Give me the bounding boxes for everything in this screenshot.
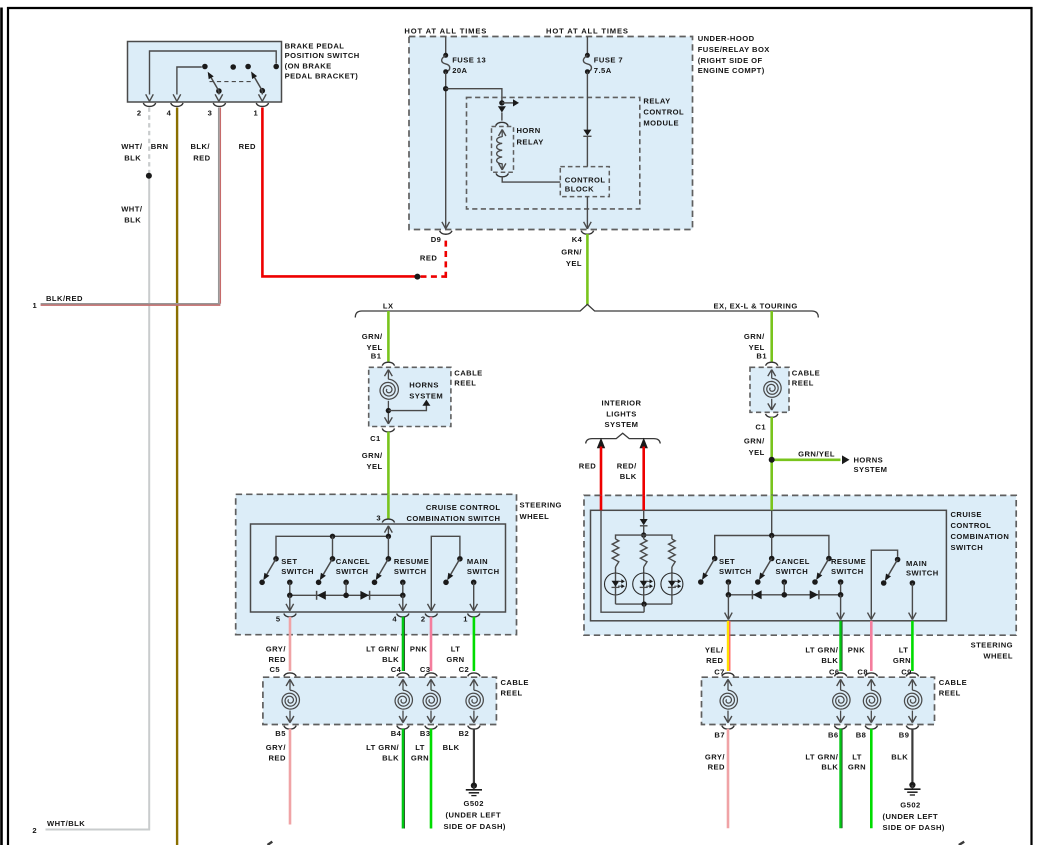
svg-text:C3: C3 [420,665,431,674]
wire LT GRN B8 down [870,729,873,828]
svg-text:SWITCH: SWITCH [951,543,984,552]
label LT GRN/BLK bottom-right [805,752,838,771]
svg-text:C5: C5 [269,665,280,674]
cable reel box bottom-right [702,677,935,724]
connector B4 [391,726,410,739]
label YEL/RED [705,646,724,665]
svg-text:LT: LT [899,646,909,655]
wire RED dashed to D9 [421,237,448,278]
svg-text:GRN/: GRN/ [362,451,383,460]
svg-text:B4: B4 [391,729,402,738]
label LT GRN left [446,645,464,664]
connector B1 right [756,352,778,366]
branch bracket LX / EX [355,304,818,317]
wire fuse13 feed [445,37,447,54]
wire pin1 internal [259,91,267,102]
connector C1 left [370,429,395,443]
label BLK bottom-right [891,752,908,761]
label LT GRN/BLK bottom-left [366,743,399,762]
svg-text:GRY/: GRY/ [266,645,287,654]
wire GRN/YEL down to right cruise switch [770,460,773,511]
svg-text:PNK: PNK [848,646,865,655]
RESUME output left [400,580,406,596]
svg-text:GRY/: GRY/ [266,743,287,752]
wire LT GRN/BLK pin4 to C4 [403,617,405,671]
svg-text:4: 4 [167,108,172,117]
cable reel coil at x=431.0 [423,679,440,722]
cable reel coil at x=728.0 [720,679,737,722]
label GRN/YEL above B1 left [362,332,383,352]
svg-text:4: 4 [392,614,397,623]
svg-text:SIDE OF DASH): SIDE OF DASH) [444,822,506,831]
contact node A [202,64,208,70]
SET output left [287,580,293,596]
ground G502 right [904,782,920,795]
svg-text:RED: RED [269,754,286,763]
wire YEL/RED to C7 [728,621,730,671]
label CABLE REEL bottom-left [501,678,529,697]
svg-text:ENGINE COMPT): ENGINE COMPT) [698,66,765,75]
connector C2 [459,665,481,677]
svg-text:BRAKE PEDAL: BRAKE PEDAL [285,41,345,50]
brake pedal position switch label [285,41,360,80]
connector C7 [714,667,734,676]
SET switch left [259,556,279,585]
resistor rail junction [641,532,646,537]
label RED at D9 [420,253,437,262]
svg-text:BLK: BLK [124,216,141,225]
resistor R3 [669,539,676,567]
left edge label 2 WHT/BLK [32,819,85,835]
svg-text:LT: LT [451,645,461,654]
label RED interior [579,462,596,471]
under-hood fuse/relay box [409,37,693,230]
pin 1 connector [254,103,269,117]
svg-text:RED: RED [269,655,286,664]
svg-text:POSITION SWITCH: POSITION SWITCH [285,51,360,60]
diode D-left right box [752,590,761,599]
connector C9 [901,667,918,676]
pin 4 connector left [392,614,409,624]
svg-text:B3: B3 [420,729,431,738]
resistor top rail [616,535,672,539]
LED3 [661,567,683,595]
svg-text:CRUISE: CRUISE [951,510,982,519]
diode D-left (points left) [317,591,326,600]
wire PNK pin2 to C3 [430,617,433,671]
wire control block to K4 [584,197,592,229]
wire LT GRN pin1 to C2 [473,617,476,671]
RESUME switch left [372,536,392,585]
border frame outer edge line [0,8,3,845]
wire SET output to C7 [725,595,733,620]
label PNK right [848,646,865,655]
horn relay box [492,127,514,173]
left edge label 1 BLK/RED [33,294,83,310]
svg-text:BLK: BLK [382,655,399,664]
label HOT AT ALL TIMES left [404,27,487,36]
svg-text:C1: C1 [755,423,766,432]
svg-text:2: 2 [32,826,37,835]
svg-text:(UNDER LEFT: (UNDER LEFT [446,811,502,820]
bracket interior lights [586,433,661,443]
svg-text:CRUISE CONTROL: CRUISE CONTROL [426,503,501,512]
wire RED/BLK to interior lights [640,438,648,511]
wire LT GRN/BLK to C6 [841,621,843,671]
svg-text:B7: B7 [714,731,725,740]
svg-text:D9: D9 [431,235,442,244]
svg-text:CONTROL: CONTROL [643,107,684,116]
svg-text:SET: SET [719,557,735,566]
pin 2 connector [137,103,156,117]
cruise control combination switch box left [236,494,517,634]
contact node C [245,64,251,70]
svg-text:CONTROL: CONTROL [565,176,606,185]
label LT GRN bottom-right [848,752,866,771]
svg-text:MAIN: MAIN [906,559,927,568]
wire BLK B2 to ground [473,729,475,784]
svg-text:1: 1 [463,614,468,623]
diode D-right right box [810,590,819,599]
svg-text:YEL/: YEL/ [705,646,724,655]
label LX [383,302,394,311]
control block label [565,176,606,194]
svg-text:WHT/: WHT/ [121,142,143,151]
svg-text:5: 5 [276,614,281,623]
contact node D [273,64,279,70]
ganged switch link (dashed) [210,81,252,83]
svg-text:(UNDER LEFT: (UNDER LEFT [883,812,939,821]
left rail inside right box (RED return) [601,510,644,612]
svg-text:LT: LT [852,752,862,761]
svg-text:YEL: YEL [749,448,765,457]
label STEERING WHEEL left [520,501,562,521]
svg-text:SWITCH: SWITCH [336,567,369,576]
svg-text:UNDER-HOOD: UNDER-HOOD [698,34,755,43]
diode line right box [726,592,844,598]
wire BRN [176,108,178,845]
RESUME output right [838,579,844,595]
junction GRN/YEL to horns [769,457,775,463]
wire GRN/YEL EX drop [770,311,773,362]
label BLK bottom-left [443,743,460,752]
svg-text:FUSE 13: FUSE 13 [452,55,486,64]
svg-text:B5: B5 [275,729,286,738]
svg-text:BLK: BLK [382,754,399,763]
wire GRN/YEL C1 to junction [770,417,773,460]
cable reel coil at x=912.4 [904,679,921,722]
wire RED to interior lights [597,438,605,511]
svg-text:CABLE: CABLE [454,369,482,378]
svg-text:B1: B1 [756,352,767,361]
connector B7 [714,726,734,740]
svg-text:(RIGHT SIDE OF: (RIGHT SIDE OF [698,56,763,65]
svg-text:PEDAL BRACKET): PEDAL BRACKET) [285,71,359,80]
splice junction on WHT/BLK [146,173,152,179]
cable reel box EX [750,367,789,412]
brake pedal position switch box [128,42,282,103]
wire LT GRN B3 down [430,729,433,829]
connector B6 [828,726,847,740]
connector B8 [856,726,878,740]
wire fuse7 feed [586,37,588,54]
svg-text:BLK: BLK [821,763,838,772]
CANCEL switch right [755,536,775,585]
svg-text:HORNS: HORNS [854,456,884,465]
svg-text:K4: K4 [572,235,583,244]
connector C8 [857,667,877,676]
svg-text:PNK: PNK [410,645,427,654]
svg-text:YEL: YEL [366,462,382,471]
svg-text:BLK: BLK [620,472,637,481]
svg-text:RED: RED [193,153,210,162]
svg-text:SET: SET [281,557,297,566]
svg-text:CABLE: CABLE [792,369,820,378]
MAIN switch right [881,557,900,586]
svg-text:RED: RED [579,462,596,471]
svg-text:WHT/BLK: WHT/BLK [47,819,85,828]
svg-text:SWITCH: SWITCH [776,567,809,576]
svg-text:SYSTEM: SYSTEM [605,420,639,429]
top rail right box [715,533,829,558]
svg-text:HORNS: HORNS [409,381,439,390]
svg-text:STEERING: STEERING [971,640,1013,649]
svg-text:3: 3 [376,513,381,522]
connector D9 [431,231,452,244]
svg-text:7.5A: 7.5A [594,66,612,75]
cable reel box LX [369,367,451,426]
svg-text:CANCEL: CANCEL [776,557,810,566]
wire RESUME output to pin 4 [399,595,407,611]
svg-text:C9: C9 [901,667,912,676]
svg-text:B1: B1 [371,352,382,361]
label CRUISE CONTROL COMBINATION SWITCH left [406,503,500,523]
svg-text:3: 3 [208,108,213,117]
svg-text:SWITCH: SWITCH [831,567,864,576]
wire pin2 internal [146,51,277,101]
svg-text:RED: RED [420,253,437,262]
svg-text:REEL: REEL [792,379,814,388]
wire fuse13 to D9 [442,72,450,229]
relay control module box [467,97,640,208]
svg-text:C7: C7 [714,667,725,676]
connector C3 [420,665,437,677]
label GRN/YEL below C1 right [744,437,765,457]
CANCEL output left [343,580,349,596]
svg-text:FUSE 7: FUSE 7 [594,55,623,64]
MAIN switch feed from pin 2 [428,536,460,611]
label G502 right [883,800,945,832]
wire LT GRN to C9 [911,621,914,671]
wire GRY/RED B7 down [727,729,730,828]
svg-text:GRN: GRN [848,763,866,772]
wire pin3 internal [215,91,223,101]
SET switch right [698,556,718,585]
label GRN/YEL below C1 left [362,451,383,471]
label CABLE REEL left-top [454,369,482,388]
svg-text:RESUME: RESUME [394,557,429,566]
svg-text:SWITCH: SWITCH [281,567,314,576]
svg-text:GRN/: GRN/ [561,247,582,256]
MAIN switch left [443,556,463,585]
svg-text:COMBINATION: COMBINATION [951,532,1010,541]
label LT GRN/BLK left [366,645,399,664]
svg-text:WHT/: WHT/ [121,204,143,213]
page continuation arrow bottom-left [268,842,273,845]
svg-text:REEL: REEL [454,379,476,388]
fuse F13 [442,53,450,74]
svg-text:SWITCH: SWITCH [719,567,752,576]
svg-text:SIDE OF DASH): SIDE OF DASH) [883,823,945,832]
label GRN/YEL horizontal [798,449,835,458]
svg-text:GRY/: GRY/ [705,752,726,761]
label FUSE 7 7.5A [594,55,623,75]
svg-text:LT GRN/: LT GRN/ [805,646,838,655]
MAIN output to C9 [909,580,917,619]
diode D-right (points right) [360,591,369,600]
label CABLE REEL right-top [792,369,820,388]
svg-text:INTERIOR: INTERIOR [602,399,642,408]
svg-text:HOT AT ALL TIMES: HOT AT ALL TIMES [546,27,629,36]
svg-text:C6: C6 [829,667,840,676]
pin 2 connector left [421,614,438,624]
svg-text:RED/: RED/ [617,462,637,471]
svg-text:BLK: BLK [124,153,141,162]
horn relay top connector [496,122,508,125]
svg-text:2: 2 [137,108,142,117]
svg-text:EX, EX-L & TOURING: EX, EX-L & TOURING [714,302,798,311]
svg-text:B9: B9 [899,731,910,740]
label GRN/YEL above B1 right [744,332,765,352]
red wires crossing dashed box top [601,495,644,510]
cable reel coil EX [764,370,781,410]
svg-text:FUSE/RELAY BOX: FUSE/RELAY BOX [698,45,770,54]
connector B9 [899,726,919,740]
svg-text:MODULE: MODULE [643,118,679,127]
MAIN switch feed from C8 [868,550,898,619]
label EX, EX-L & TOURING [714,302,798,311]
wire PNK to C8 [870,621,873,671]
svg-text:GRN: GRN [893,656,911,665]
svg-text:GRN/: GRN/ [362,332,383,341]
svg-text:G502: G502 [900,800,920,809]
wire fuse7 to control block with diode [583,72,591,167]
label HORN RELAY [517,126,544,146]
svg-text:LT GRN/: LT GRN/ [805,752,838,761]
inner switch box left [251,524,506,612]
label GRY/RED bottom-left [266,743,287,762]
svg-text:CABLE: CABLE [501,678,529,687]
connector B5 [275,726,296,739]
svg-text:RESUME: RESUME [831,557,866,566]
svg-text:LT GRN/: LT GRN/ [366,743,399,752]
top rail left box [276,534,391,559]
label PNK left [410,645,427,654]
junction to horns system [386,408,391,413]
switch arm left (pins 3-4) [208,72,222,94]
svg-text:2: 2 [421,614,426,623]
CANCEL switch left [316,536,336,585]
label GRY/RED left [266,645,287,664]
svg-text:C4: C4 [391,665,402,674]
wire GRY/RED pin5 to C5 [289,617,292,671]
svg-text:BLOCK: BLOCK [565,185,594,194]
wire branch to relay module [446,89,502,103]
svg-text:LIGHTS: LIGHTS [606,409,637,418]
wire SET output to pin 5 [286,595,294,611]
cable reel coil at x=403.0 [395,679,412,722]
wire GRN/YEL into right box [771,510,773,535]
connector C1 right [755,414,778,432]
svg-text:GRN/: GRN/ [744,437,765,446]
svg-text:SWITCH: SWITCH [467,567,500,576]
svg-text:BLK: BLK [891,752,908,761]
svg-text:C1: C1 [370,434,381,443]
label INTERIOR LIGHTS SYSTEM [602,399,642,430]
SET output right [726,579,732,595]
label WHT/BLK upper [121,142,143,162]
label RED [239,142,256,151]
RED/BLK entry diode [640,510,648,535]
svg-text:LT: LT [415,743,425,752]
cable reel coil LX [380,370,398,424]
label CABLE REEL bottom-right [939,678,967,697]
connector C6 [829,667,847,676]
svg-text:B6: B6 [828,731,839,740]
contact node B [230,64,236,70]
pin 3 connector left [376,513,394,522]
wire pin4 internal [173,67,202,101]
connector C5 [269,665,296,677]
svg-text:LX: LX [383,302,394,311]
svg-text:CANCEL: CANCEL [336,557,370,566]
arrow tap to right [502,99,519,106]
svg-text:C8: C8 [857,667,868,676]
connector K4 [572,231,594,244]
diode line left box [287,593,406,599]
wire RESUME output to C6 [837,595,845,620]
svg-text:HORN: HORN [517,126,541,135]
svg-text:RELAY: RELAY [643,96,670,105]
wire BLK B9 to ground [911,729,913,784]
wire WHT/BLK dashed segment [148,108,150,176]
svg-text:COMBINATION SWITCH: COMBINATION SWITCH [406,514,500,523]
horn relay coil [497,130,506,170]
svg-text:GRN: GRN [411,754,429,763]
connector B2 [459,726,481,739]
wire WHT/BLK to left edge label 2 [46,176,150,830]
svg-text:CABLE: CABLE [939,678,967,687]
wire LT GRN/BLK B4 down [403,729,405,829]
arrow up into pin 3 [385,526,393,537]
svg-text:RED: RED [708,763,725,772]
svg-text:WHEEL: WHEEL [520,512,550,521]
splice junction on RED wire [414,274,420,280]
inner switch box right [591,510,947,621]
label GRY/RED bottom-right [705,752,726,771]
svg-text:GRN: GRN [446,655,464,664]
svg-text:GRN/: GRN/ [744,332,765,341]
resistor R2 [640,535,647,567]
CANCEL output right [782,579,788,595]
control block box [560,167,609,197]
label STEERING WHEEL right [971,640,1013,660]
switch arm right (pins 1-2) [251,72,265,94]
label HOT AT ALL TIMES right [546,27,629,36]
pin 1 connector left [463,614,480,624]
page continuation arrow bottom-right [959,842,964,845]
pin 4 connector [167,103,183,117]
